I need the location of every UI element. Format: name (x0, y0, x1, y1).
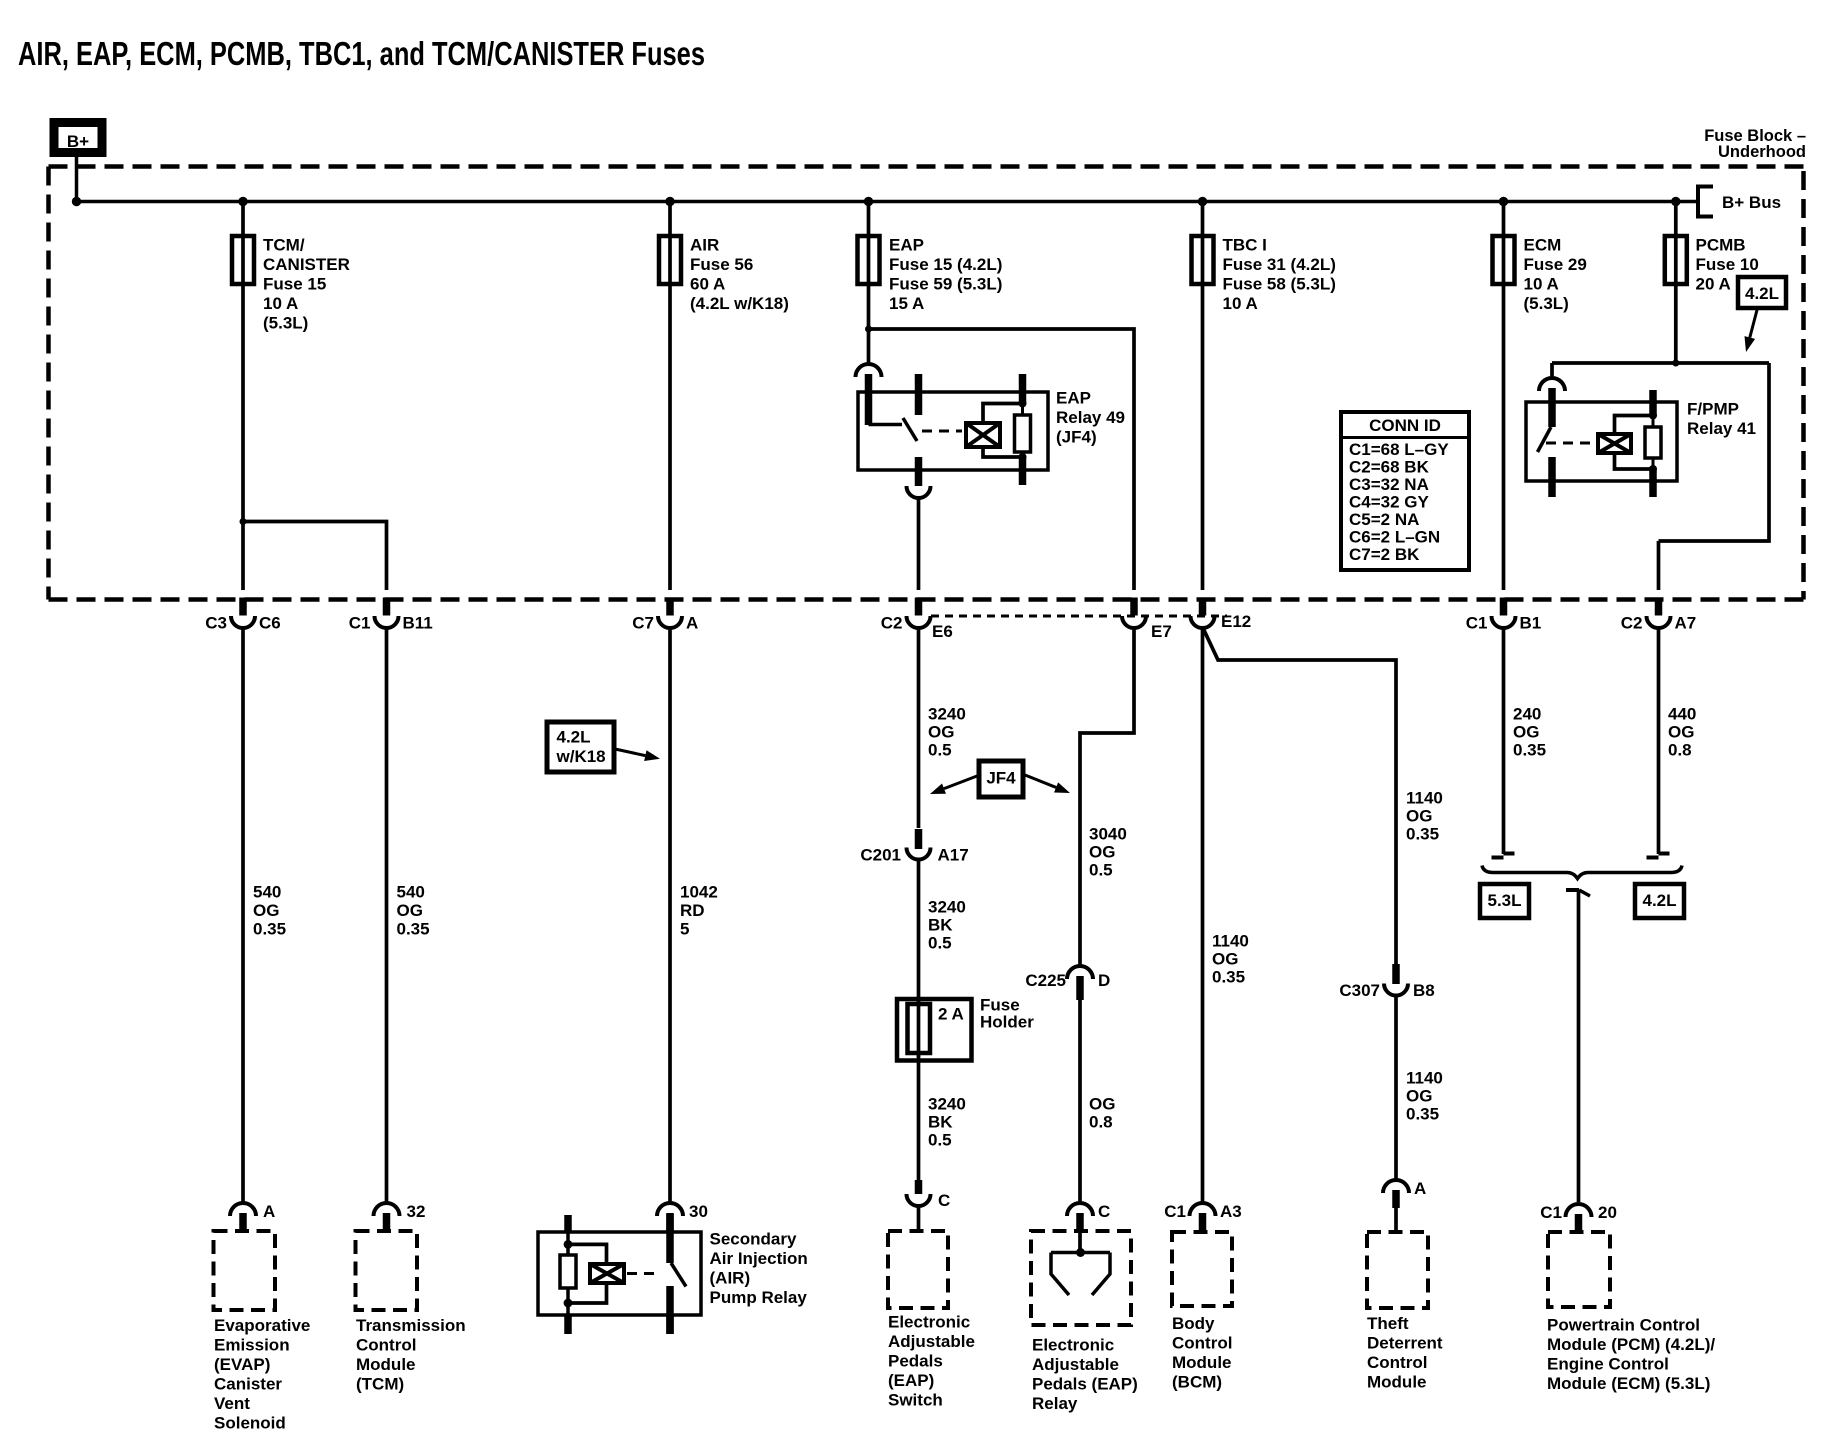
svg-text:0.5: 0.5 (928, 1131, 952, 1150)
svg-text:4.2L: 4.2L (557, 727, 591, 746)
svg-text:4.2L: 4.2L (1642, 891, 1676, 910)
svg-text:F/PMP: F/PMP (1687, 400, 1739, 419)
svg-text:Vent: Vent (214, 1394, 250, 1413)
svg-text:Module (PCM) (4.2L)/: Module (PCM) (4.2L)/ (1547, 1335, 1715, 1354)
svg-text:C: C (938, 1191, 950, 1210)
svg-text:TCM/: TCM/ (263, 236, 305, 255)
svg-text:Pedals (EAP): Pedals (EAP) (1032, 1375, 1138, 1394)
svg-text:E6: E6 (932, 622, 953, 641)
svg-text:OG: OG (928, 723, 954, 742)
svg-text:Pedals: Pedals (888, 1352, 943, 1371)
svg-text:Module: Module (356, 1355, 416, 1374)
svg-text:Evaporative: Evaporative (214, 1316, 310, 1335)
svg-text:Control: Control (1172, 1334, 1232, 1353)
svg-text:(EAP): (EAP) (888, 1371, 934, 1390)
svg-text:Air Injection: Air Injection (710, 1249, 808, 1268)
svg-text:A17: A17 (938, 846, 969, 865)
svg-text:3240: 3240 (928, 705, 966, 724)
svg-text:0.5: 0.5 (928, 934, 952, 953)
svg-text:Secondary: Secondary (710, 1230, 797, 1249)
svg-text:JF4: JF4 (986, 769, 1016, 788)
svg-text:A: A (1414, 1179, 1426, 1198)
svg-text:Relay: Relay (1032, 1394, 1078, 1413)
svg-text:0.35: 0.35 (1406, 1105, 1439, 1124)
svg-text:20 A: 20 A (1696, 275, 1731, 294)
svg-text:1140: 1140 (1212, 932, 1249, 951)
svg-text:OG: OG (1406, 807, 1432, 826)
svg-text:Relay 41: Relay 41 (1687, 419, 1756, 438)
svg-text:Pump Relay: Pump Relay (710, 1288, 808, 1307)
svg-text:CANISTER: CANISTER (263, 255, 350, 274)
svg-text:Module: Module (1172, 1353, 1232, 1372)
svg-text:EAP: EAP (1056, 389, 1091, 408)
svg-text:Electronic: Electronic (1032, 1336, 1114, 1355)
svg-text:0.35: 0.35 (397, 920, 430, 939)
svg-text:5: 5 (680, 920, 689, 939)
svg-text:3240: 3240 (928, 898, 966, 917)
svg-text:BK: BK (928, 916, 953, 935)
svg-text:Module: Module (1367, 1373, 1427, 1392)
svg-text:3040: 3040 (1089, 825, 1127, 844)
svg-text:C225: C225 (1025, 971, 1066, 990)
svg-text:C2: C2 (881, 614, 903, 633)
svg-text:ECM: ECM (1524, 236, 1562, 255)
svg-text:4.2L: 4.2L (1745, 284, 1779, 303)
svg-text:Adjustable: Adjustable (1032, 1355, 1119, 1374)
svg-text:D: D (1098, 971, 1110, 990)
svg-text:TBC I: TBC I (1223, 236, 1267, 255)
svg-text:OG: OG (1212, 950, 1238, 969)
svg-text:C1: C1 (1540, 1203, 1562, 1222)
svg-text:1140: 1140 (1406, 1069, 1443, 1088)
svg-text:Relay 49: Relay 49 (1056, 408, 1125, 427)
svg-text:Underhood: Underhood (1718, 143, 1806, 161)
svg-text:Fuse 56: Fuse 56 (690, 255, 753, 274)
svg-text:EAP: EAP (889, 236, 924, 255)
svg-text:10 A: 10 A (1223, 294, 1258, 313)
svg-text:Theft: Theft (1367, 1314, 1409, 1333)
svg-text:1042: 1042 (680, 883, 718, 902)
svg-text:Electronic: Electronic (888, 1313, 970, 1332)
svg-text:C1: C1 (1466, 614, 1488, 633)
svg-text:Holder: Holder (980, 1013, 1034, 1032)
svg-text:0.8: 0.8 (1668, 741, 1692, 760)
svg-text:E12: E12 (1221, 612, 1251, 631)
svg-text:E7: E7 (1151, 622, 1172, 641)
svg-text:60 A: 60 A (690, 275, 725, 294)
svg-text:C3=32 NA: C3=32 NA (1349, 475, 1429, 494)
svg-text:Fuse 15 (4.2L): Fuse 15 (4.2L) (889, 255, 1002, 274)
svg-text:Fuse 10: Fuse 10 (1696, 255, 1759, 274)
svg-text:PCMB: PCMB (1696, 236, 1746, 255)
svg-text:(TCM): (TCM) (356, 1375, 404, 1394)
svg-text:C3: C3 (205, 614, 227, 633)
svg-text:Fuse 58 (5.3L): Fuse 58 (5.3L) (1223, 275, 1336, 294)
svg-text:OG: OG (397, 901, 423, 920)
svg-text:Transmission: Transmission (356, 1316, 466, 1335)
svg-text:5.3L: 5.3L (1487, 891, 1521, 910)
svg-text:(5.3L): (5.3L) (1524, 294, 1569, 313)
svg-text:Control: Control (1367, 1353, 1427, 1372)
svg-text:A: A (686, 614, 698, 633)
svg-text:Engine Control: Engine Control (1547, 1355, 1669, 1374)
svg-text:CONN ID: CONN ID (1369, 416, 1441, 435)
svg-text:3240: 3240 (928, 1095, 966, 1114)
svg-text:C7: C7 (632, 614, 654, 633)
svg-text:(5.3L): (5.3L) (263, 314, 308, 333)
svg-text:(4.2L w/K18): (4.2L w/K18) (690, 294, 789, 313)
svg-text:1140: 1140 (1406, 789, 1443, 808)
svg-text:B11: B11 (403, 614, 433, 633)
svg-text:0.35: 0.35 (253, 920, 286, 939)
svg-text:A7: A7 (1675, 614, 1697, 633)
svg-text:A3: A3 (1220, 1202, 1242, 1221)
svg-text:0.35: 0.35 (1406, 825, 1439, 844)
svg-text:Canister: Canister (214, 1375, 282, 1394)
svg-text:20: 20 (1598, 1203, 1617, 1222)
svg-text:(EVAP): (EVAP) (214, 1355, 270, 1374)
svg-text:0.35: 0.35 (1513, 741, 1546, 760)
svg-text:(BCM): (BCM) (1172, 1373, 1222, 1392)
svg-text:0.5: 0.5 (928, 741, 952, 760)
svg-text:C201: C201 (860, 846, 901, 865)
svg-text:AIR: AIR (690, 236, 719, 255)
svg-text:Switch: Switch (888, 1391, 943, 1410)
svg-text:C6=2 L–GN: C6=2 L–GN (1349, 528, 1440, 547)
svg-text:440: 440 (1668, 705, 1696, 724)
svg-text:0.8: 0.8 (1089, 1113, 1113, 1132)
svg-text:10 A: 10 A (263, 294, 298, 313)
svg-text:30: 30 (689, 1202, 708, 1221)
svg-text:C4=32 GY: C4=32 GY (1349, 493, 1430, 512)
svg-text:0.35: 0.35 (1212, 968, 1245, 987)
svg-text:C1=68 L–GY: C1=68 L–GY (1349, 440, 1449, 459)
svg-text:2 A: 2 A (938, 1005, 964, 1024)
svg-text:OG: OG (253, 901, 279, 920)
svg-text:Fuse 15: Fuse 15 (263, 275, 326, 294)
svg-text:(AIR): (AIR) (710, 1269, 751, 1288)
svg-text:C: C (1098, 1202, 1110, 1221)
svg-text:10 A: 10 A (1524, 275, 1559, 294)
svg-text:B1: B1 (1520, 614, 1542, 633)
svg-text:C1: C1 (349, 614, 371, 633)
svg-text:Fuse 29: Fuse 29 (1524, 255, 1587, 274)
svg-text:Control: Control (356, 1336, 416, 1355)
svg-text:RD: RD (680, 901, 705, 920)
svg-text:OG: OG (1089, 1095, 1115, 1114)
svg-text:Body: Body (1172, 1314, 1215, 1333)
svg-text:Fuse 31 (4.2L): Fuse 31 (4.2L) (1223, 255, 1336, 274)
svg-text:540: 540 (397, 883, 425, 902)
svg-text:OG: OG (1406, 1087, 1432, 1106)
svg-text:C1: C1 (1164, 1202, 1186, 1221)
svg-text:Emission: Emission (214, 1336, 290, 1355)
svg-text:OG: OG (1089, 843, 1115, 862)
svg-text:240: 240 (1513, 705, 1541, 724)
svg-text:C6: C6 (259, 614, 281, 633)
svg-text:w/K18: w/K18 (556, 747, 606, 766)
svg-text:Adjustable: Adjustable (888, 1332, 975, 1351)
svg-text:OG: OG (1668, 723, 1694, 742)
svg-text:Deterrent: Deterrent (1367, 1334, 1443, 1353)
svg-text:B+ Bus: B+ Bus (1722, 193, 1781, 212)
svg-text:C2=68 BK: C2=68 BK (1349, 458, 1430, 477)
svg-text:A: A (263, 1202, 275, 1221)
svg-text:C307: C307 (1339, 981, 1380, 1000)
svg-text:Solenoid: Solenoid (214, 1414, 286, 1433)
svg-text:AIR, EAP, ECM, PCMB, TBC1, and: AIR, EAP, ECM, PCMB, TBC1, and TCM/CANIS… (18, 35, 705, 72)
svg-text:C2: C2 (1621, 614, 1643, 633)
svg-text:32: 32 (407, 1202, 426, 1221)
svg-text:(JF4): (JF4) (1056, 428, 1097, 447)
svg-text:BK: BK (928, 1113, 953, 1132)
svg-text:Module (ECM) (5.3L): Module (ECM) (5.3L) (1547, 1374, 1710, 1393)
svg-text:0.5: 0.5 (1089, 861, 1113, 880)
svg-text:540: 540 (253, 883, 281, 902)
svg-text:C5=2 NA: C5=2 NA (1349, 510, 1419, 529)
svg-text:B8: B8 (1413, 981, 1435, 1000)
svg-text:Powertrain Control: Powertrain Control (1547, 1316, 1700, 1335)
svg-text:B+: B+ (67, 132, 89, 151)
svg-text:OG: OG (1513, 723, 1539, 742)
svg-text:Fuse 59 (5.3L): Fuse 59 (5.3L) (889, 275, 1002, 294)
svg-text:15 A: 15 A (889, 294, 924, 313)
svg-text:C7=2 BK: C7=2 BK (1349, 545, 1420, 564)
